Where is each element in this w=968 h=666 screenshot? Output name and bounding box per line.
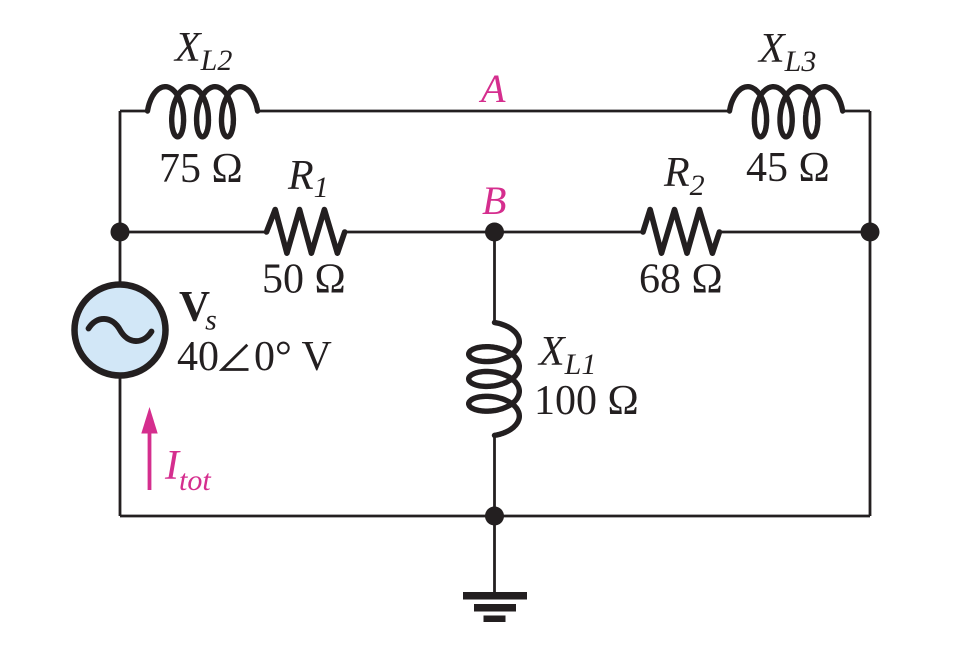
source sine wave: [89, 319, 152, 341]
svg-text:Itot: Itot: [164, 443, 211, 497]
wire node B down to XL1: [493, 232, 496, 321]
svg-text:75 Ω: 75 Ω: [159, 146, 243, 192]
resistor R2 zigzag: [643, 210, 719, 254]
inductor XL1 coil: [469, 323, 520, 436]
source Vs circle: [75, 285, 166, 376]
svg-text:0° V: 0° V: [254, 334, 332, 380]
svg-text:45 Ω: 45 Ω: [746, 145, 830, 191]
svg-text:40: 40: [177, 334, 219, 380]
wire ground stem: [493, 516, 496, 593]
wire top rail middle (node A run): [258, 110, 728, 113]
wire middle rail: node B to R2: [495, 231, 644, 234]
wire top rail right stub: [844, 110, 870, 113]
svg-text:XL3: XL3: [757, 26, 816, 78]
wire bottom rail: [120, 515, 870, 518]
svg-text:R2: R2: [663, 150, 705, 202]
svg-text:XL2: XL2: [173, 25, 232, 77]
node B junction dot: [485, 223, 504, 242]
wire middle rail: left node to R1: [120, 231, 267, 234]
node bottom junction dot: [485, 507, 504, 526]
resistor R1 zigzag: [267, 210, 345, 254]
node right junction dot: [861, 223, 880, 242]
wire right vertical: [869, 111, 872, 516]
angle symbol: [222, 345, 248, 370]
inductor XL3 coil: [730, 87, 843, 137]
svg-text:Vs: Vs: [179, 284, 217, 337]
ground symbol: [463, 592, 527, 622]
node left junction dot: [111, 223, 130, 242]
arrow Itot current: [141, 407, 157, 490]
svg-text:R1: R1: [287, 153, 329, 204]
svg-text:68 Ω: 68 Ω: [639, 257, 723, 303]
wire XL1 to bottom rail: [493, 437, 496, 516]
svg-text:50 Ω: 50 Ω: [262, 257, 346, 303]
wire left vertical top (node to Vs): [119, 111, 122, 284]
wire middle rail: R2 to right node: [719, 231, 871, 234]
wire middle rail: R1 to node B: [344, 231, 495, 234]
inductor XL2 coil: [148, 87, 258, 137]
wire left vertical bottom (Vs to bottom rail): [119, 376, 122, 516]
svg-text:100 Ω: 100 Ω: [534, 378, 639, 424]
svg-text:XL1: XL1: [537, 329, 596, 381]
wire top rail left stub: [120, 110, 147, 113]
svg-text:A: A: [478, 66, 506, 111]
svg-text:B: B: [482, 178, 506, 223]
